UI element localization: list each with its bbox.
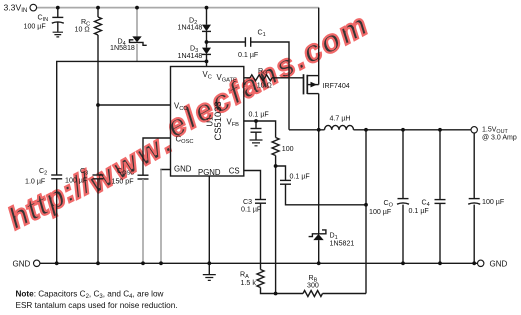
capacitor C1 plates xyxy=(244,37,246,47)
transistor Q1 IRF7404 xyxy=(303,74,305,94)
node COSC-gnd xyxy=(141,261,145,265)
node VC-C2 xyxy=(205,60,209,64)
node sense-out xyxy=(364,128,368,132)
node VCC xyxy=(96,103,100,107)
wire: VOUT sense line down to RB xyxy=(365,130,367,294)
wire: D2 anode from rail xyxy=(206,8,208,25)
svg-text:0.1 µF: 0.1 µF xyxy=(241,205,262,213)
svg-text:100 µF: 100 µF xyxy=(65,177,88,185)
wire: switch node to inductor xyxy=(289,129,325,131)
svg-text:@ 3.0 Amp: @ 3.0 Amp xyxy=(482,135,517,142)
svg-text:4.7 µH: 4.7 µH xyxy=(330,115,351,123)
node divider-RB xyxy=(274,292,278,296)
node D4-rail xyxy=(135,6,139,10)
wire: GND pin xyxy=(161,170,171,172)
svg-text:1N4148: 1N4148 xyxy=(178,52,203,60)
svg-text:10 Ω: 10 Ω xyxy=(75,26,90,34)
wire: MOSFET source drop from rail xyxy=(318,8,320,85)
node GNDpin-gnd xyxy=(159,261,163,265)
svg-text:100: 100 xyxy=(282,145,294,153)
wire: drain to switch node xyxy=(318,94,320,130)
wire: D4 branch upper (gray) xyxy=(136,8,138,37)
inductor L1 4.7uH xyxy=(325,125,354,129)
diode D2 1N4148 xyxy=(202,25,211,32)
svg-text:CS51033: CS51033 xyxy=(212,101,223,140)
svg-text:0.1 µF: 0.1 µF xyxy=(249,111,270,119)
wire: 3.3V input rail (gray) xyxy=(37,7,319,9)
wire: CS filter branch xyxy=(276,166,286,180)
resistor 100 xyxy=(272,138,279,156)
capacitor 0.1uF at VFB wires xyxy=(255,121,257,128)
node D2-rail xyxy=(205,6,209,10)
svg-text:100 µF: 100 µF xyxy=(369,208,392,216)
svg-text:1.5 k: 1.5 k xyxy=(241,279,257,287)
svg-text:1N4148: 1N4148 xyxy=(178,24,203,32)
capacitor CIN plates xyxy=(52,16,63,18)
wire: CO to ground rail xyxy=(402,205,404,264)
svg-text:CS: CS xyxy=(229,166,240,175)
svg-text:1.0 µF: 1.0 µF xyxy=(25,177,46,185)
svg-text:ESR tantalum caps used for noi: ESR tantalum caps used for noise reducti… xyxy=(16,301,178,310)
ground below VFB cap xyxy=(250,140,263,146)
diode D1 1N5821 xyxy=(309,230,326,237)
capacitor 0.1uF at VFB plates xyxy=(251,128,262,130)
wire: D4 branch lower (gray) xyxy=(136,44,138,61)
capacitor C3s plates xyxy=(255,199,266,201)
capacitor CIN wires xyxy=(57,8,59,18)
wire: C1 branch from D2/D3 junction xyxy=(207,41,246,43)
node C4-out xyxy=(438,128,442,132)
wire: output cap to ground rail xyxy=(473,205,475,264)
capacitor COSC plates xyxy=(138,174,149,176)
svg-text:150 pF: 150 pF xyxy=(112,177,135,185)
svg-text:0.1 µF: 0.1 µF xyxy=(238,51,259,59)
ground rail xyxy=(40,262,478,264)
terminal 1.5VOUT xyxy=(471,127,477,133)
wire: C2 to ground rail xyxy=(56,179,58,263)
wire: CS filter cap to sense line xyxy=(286,184,367,204)
wire: D3 cathode to VC pin xyxy=(206,54,208,66)
wire: GND pin drop (gray) xyxy=(160,170,162,264)
wire: D1 branch xyxy=(318,130,320,234)
wire: CS pin xyxy=(244,171,261,200)
wire: VGATE pin to RG xyxy=(244,77,250,79)
wire: C4 branch xyxy=(439,130,441,199)
wire: VCC line down to C3 xyxy=(97,35,99,175)
wire: D1 anode to ground rail xyxy=(318,240,320,263)
svg-text:GND: GND xyxy=(13,260,31,269)
node CO-out xyxy=(401,128,405,132)
resistor RG xyxy=(250,75,272,81)
wire: C3 to ground rail xyxy=(97,179,99,263)
svg-text:100 µF: 100 µF xyxy=(24,23,47,31)
svg-text:300: 300 xyxy=(307,282,319,290)
node switch xyxy=(317,128,321,132)
resistor RC xyxy=(97,8,99,17)
svg-text:0.1 µF: 0.1 µF xyxy=(409,207,430,215)
svg-text:10 Ω: 10 Ω xyxy=(257,81,272,89)
node RC-rail xyxy=(96,6,100,10)
node D2-D3-C1 xyxy=(205,40,209,44)
wire: RG to gate xyxy=(272,77,304,79)
diode D4 1N5818 xyxy=(132,36,141,42)
svg-text:GND: GND xyxy=(490,260,508,269)
svg-text:0.1 µF: 0.1 µF xyxy=(290,172,311,180)
node C4-gnd xyxy=(438,261,442,265)
capacitor 100uF output plates xyxy=(469,198,480,200)
wire: COSC drop to rail (gray) xyxy=(142,179,144,263)
IC pin labels xyxy=(174,70,240,177)
wire: RB to sense line xyxy=(323,293,367,295)
node outcap-gnd xyxy=(472,261,476,265)
svg-text:IRF7404: IRF7404 xyxy=(323,82,350,90)
svg-text:Note: Capacitors C2, C3, and C: Note: Capacitors C2, C3, and C4, are low xyxy=(16,289,164,300)
resistor RB xyxy=(303,291,323,297)
wire: RA to RB xyxy=(261,288,304,294)
resistor RA xyxy=(257,270,264,288)
wire: 100 ohm to divider node xyxy=(275,156,277,294)
svg-text:100 µF: 100 µF xyxy=(482,198,505,206)
ground below CIN xyxy=(53,32,63,37)
wire: D2 cathode to D3 anode xyxy=(206,31,208,47)
op-amp U1 box CS51033 xyxy=(171,67,244,177)
svg-text:GND: GND xyxy=(174,165,192,174)
svg-text:1N5818: 1N5818 xyxy=(110,44,135,52)
capacitor CO plates xyxy=(398,198,409,200)
node CIN-rail xyxy=(56,6,60,10)
node D1-gnd xyxy=(317,261,321,265)
terminal GND right xyxy=(478,260,484,266)
node C3-gnd xyxy=(96,261,100,265)
svg-text:PGND: PGND xyxy=(198,168,221,177)
node C2-gnd xyxy=(55,261,59,265)
svg-text:1N5821: 1N5821 xyxy=(330,240,355,248)
wire: C3s to RA xyxy=(260,203,262,269)
wire: CO branch xyxy=(402,130,404,198)
capacitor 0.1uF CS filter plates xyxy=(280,179,291,181)
node PGND-gnd xyxy=(207,261,211,265)
wire: C1 to switch node xyxy=(251,42,289,130)
ground below PGND xyxy=(203,275,216,281)
node CO-gnd xyxy=(401,261,405,265)
terminal 3.3VIN xyxy=(30,4,37,11)
wire: output line xyxy=(354,129,471,131)
diode D3 1N4148 xyxy=(202,48,211,55)
capacitor C2 plates xyxy=(51,174,62,176)
wire: C4 to ground rail xyxy=(439,204,441,264)
node sense-tap xyxy=(364,203,368,207)
terminal GND left xyxy=(34,260,40,266)
node 100-divider xyxy=(274,164,278,168)
node VFB-cap xyxy=(254,119,258,123)
wire: output cap branch from terminal xyxy=(473,133,475,198)
capacitor C3 plates xyxy=(93,174,104,176)
wire: VFB pin line xyxy=(244,121,276,138)
wire: PGND pin down xyxy=(208,176,210,274)
wire: COSC pin xyxy=(143,138,171,175)
capacitor C4 plates xyxy=(435,199,446,201)
watermark http://www.elecfans.com xyxy=(2,6,375,236)
wire: VC line to C2 xyxy=(57,61,207,174)
note text xyxy=(16,289,178,310)
wire: VCC pin to node xyxy=(98,104,171,106)
